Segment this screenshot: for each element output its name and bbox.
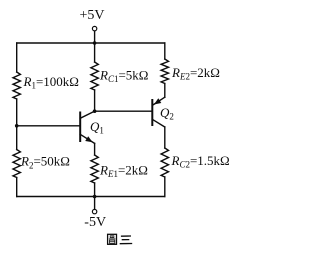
svg-text:RE2=2kΩ: RE2=2kΩ (171, 65, 220, 82)
caption glyph 三 (120, 236, 133, 244)
svg-text:+5V: +5V (80, 8, 105, 23)
transistor Q1 collector (80, 111, 94, 118)
wire bottom rail (17, 196, 165, 198)
wire Q1 emitter to RE1 (94, 143, 96, 155)
node collector junction (93, 109, 97, 113)
resistor RC2 (161, 148, 168, 177)
node bottom rail / RE1 junction (93, 195, 97, 199)
wire top rail to RE2 (164, 43, 166, 59)
wire RE1 to bottom rail (94, 183, 96, 197)
wire Q1 base (17, 125, 80, 127)
resistor R1 (13, 72, 20, 99)
svg-text:R2=50kΩ: R2=50kΩ (20, 154, 70, 171)
caption glyph 圖 (108, 234, 117, 244)
wire RC2 to bottom rail (164, 177, 166, 197)
svg-text:Q2: Q2 (160, 105, 174, 122)
transistor Q1 emitter arrow (85, 136, 92, 142)
resistor R2 (13, 150, 20, 178)
transistor Q2 emitter arrow (154, 98, 161, 104)
svg-text:RC2=1.5kΩ: RC2=1.5kΩ (171, 153, 230, 170)
terminal -5V (92, 209, 96, 213)
node R1-R2 junction (15, 124, 19, 128)
wire left rail middle segment (16, 99, 18, 150)
transistor Q2 bar (151, 100, 153, 125)
svg-text:Q1: Q1 (90, 119, 104, 136)
svg-text:-5V: -5V (84, 215, 106, 230)
svg-text:RC1=5kΩ: RC1=5kΩ (99, 67, 148, 84)
resistor RE1 (91, 155, 98, 183)
node top rail / RC1 junction (93, 41, 97, 45)
wire RC1 to collector node (94, 90, 96, 111)
transistor Q2 collector (152, 119, 165, 127)
wire Q2 collector to RC2 (164, 127, 166, 148)
terminal +5V (92, 26, 96, 30)
wire top rail (17, 42, 165, 44)
resistor RE2 (161, 59, 168, 84)
wire collector node to Q2 base (95, 110, 153, 112)
resistor RC1 (91, 62, 98, 90)
wire RE2 to Q2 emitter (164, 84, 166, 98)
wire -5V terminal lead (94, 197, 96, 210)
transistor Q1 bar (79, 113, 81, 142)
wire left rail upper segment (16, 43, 18, 72)
svg-text:RE1=2kΩ: RE1=2kΩ (99, 162, 148, 179)
wire +5V terminal lead (94, 31, 96, 43)
wire top rail to RC1 (94, 43, 96, 62)
wire left rail lower segment (16, 178, 18, 197)
transistor Q2 emitter (154, 97, 165, 104)
svg-text:R1=100kΩ: R1=100kΩ (23, 74, 79, 91)
transistor Q1 emitter (80, 134, 94, 143)
